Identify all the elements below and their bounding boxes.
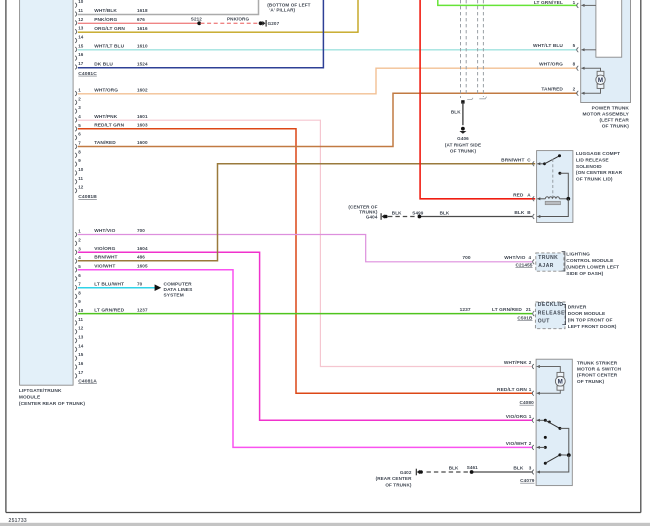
svg-text:13: 13 bbox=[78, 26, 84, 31]
svg-text:(LEFT REAR: (LEFT REAR bbox=[599, 118, 629, 124]
svg-text:WHT/VIO: WHT/VIO bbox=[504, 255, 525, 261]
svg-text:12: 12 bbox=[78, 326, 84, 331]
svg-text:DOOR MODULE: DOOR MODULE bbox=[568, 311, 606, 317]
lighting control module trunk ajar input bbox=[462, 251, 619, 277]
striker switch pin 3 BLK and C4079 bbox=[513, 455, 568, 483]
svg-text:WHT/ORG: WHT/ORG bbox=[539, 62, 563, 68]
svg-text:COMPUTER: COMPUTER bbox=[164, 282, 193, 288]
svg-text:MODULE: MODULE bbox=[19, 395, 41, 401]
svg-text:OF TRUNK): OF TRUNK) bbox=[450, 149, 477, 154]
wire TAN/RED 1600 (C4081B pin 7 to power trunk motor pin 2) bbox=[78, 93, 577, 146]
svg-text:486: 486 bbox=[137, 254, 145, 259]
svg-text:15: 15 bbox=[78, 352, 84, 357]
svg-text:(UNDER LOWER LEFT: (UNDER LOWER LEFT bbox=[566, 264, 619, 270]
svg-text:OF TRUNK): OF TRUNK) bbox=[385, 483, 412, 488]
svg-text:14: 14 bbox=[78, 343, 84, 348]
svg-text:700: 700 bbox=[462, 255, 471, 261]
svg-text:TAN/RED: TAN/RED bbox=[541, 87, 563, 93]
svg-text:MOTOR & SWITCH: MOTOR & SWITCH bbox=[577, 367, 622, 373]
svg-text:14: 14 bbox=[78, 35, 84, 40]
wire WHT/LT BLU 1610 (pin 15 to power trunk motor pin 5) bbox=[78, 44, 577, 50]
motor pin 2 TAN/RED bbox=[541, 87, 600, 96]
ground G406 (at right side of trunk) bbox=[445, 127, 481, 154]
connector C4081C pins 10-17 bbox=[75, 0, 97, 77]
solenoid switch bbox=[543, 154, 568, 199]
motor pin 5 WHT/LT BLU bbox=[533, 43, 596, 52]
svg-text:C4081A: C4081A bbox=[78, 378, 97, 384]
svg-text:AJAR: AJAR bbox=[538, 263, 554, 269]
wire WHT/ORG 1602 (C4081B pin 1 to power trunk motor pin 8) bbox=[78, 68, 577, 94]
solenoid pin C BRN/WHT bbox=[501, 158, 544, 167]
solenoid pin B BLK bbox=[514, 199, 568, 219]
svg-text:2: 2 bbox=[529, 441, 532, 446]
wire BLK (solenoid pin B to splice S499) bbox=[419, 211, 532, 217]
svg-text:BLK: BLK bbox=[451, 109, 461, 114]
svg-text:BLK: BLK bbox=[392, 211, 402, 216]
ground G404 (center of trunk) bbox=[348, 205, 387, 220]
svg-text:LT GRN/RED: LT GRN/RED bbox=[94, 307, 124, 313]
striker pin 2 WHT/PNK bbox=[504, 360, 560, 372]
svg-text:DECKLID: DECKLID bbox=[538, 302, 564, 308]
svg-text:12: 12 bbox=[78, 17, 84, 22]
svg-text:(CENTER REAR OF TRUNK): (CENTER REAR OF TRUNK) bbox=[19, 401, 85, 407]
dashed off-page wires (4) with loose ends bbox=[461, 0, 487, 100]
svg-text:10: 10 bbox=[78, 167, 84, 172]
svg-text:676: 676 bbox=[137, 17, 145, 22]
svg-text:WHT/LT BLU: WHT/LT BLU bbox=[94, 44, 124, 50]
motor M1 (power trunk) bbox=[596, 71, 605, 88]
svg-text:BLK: BLK bbox=[514, 210, 525, 216]
svg-text:G404: G404 bbox=[366, 215, 378, 220]
svg-text:DK BLU: DK BLU bbox=[94, 62, 113, 68]
solenoid pin A RED and coil bbox=[513, 193, 570, 205]
wire DK BLU 1524 (pin 17, up off-page) bbox=[78, 0, 324, 68]
svg-text:LT BLU/WHT: LT BLU/WHT bbox=[94, 281, 124, 287]
wire BLK dashed to ground G404 bbox=[388, 211, 418, 217]
svg-text:OF TRUNK LID): OF TRUNK LID) bbox=[576, 177, 613, 183]
svg-text:10: 10 bbox=[78, 308, 84, 313]
ground G402 (rear center of trunk) bbox=[376, 469, 423, 488]
ground G207 (bottom of left A pillar) bbox=[259, 2, 311, 26]
svg-text:WHT/PNK: WHT/PNK bbox=[504, 360, 528, 366]
svg-text:1616: 1616 bbox=[137, 26, 148, 31]
striker pin 1 RED/LT GRN and C4080 bbox=[497, 387, 560, 405]
svg-text:1: 1 bbox=[529, 387, 532, 392]
trunk striker motor and switch box bbox=[536, 359, 621, 485]
svg-text:LIGHTING: LIGHTING bbox=[566, 251, 590, 257]
svg-text:WHT/BLK: WHT/BLK bbox=[94, 8, 117, 14]
svg-text:TAN/RED: TAN/RED bbox=[94, 140, 116, 146]
svg-text:C4081B: C4081B bbox=[78, 194, 97, 200]
svg-text:3: 3 bbox=[529, 466, 532, 471]
striker switch pin 1 VIO/ORG bbox=[506, 414, 546, 423]
svg-text:POWER TRUNK: POWER TRUNK bbox=[592, 105, 630, 111]
svg-text:BLK: BLK bbox=[513, 466, 524, 472]
wire VIO/WHT 1605 (C4081A pin 5 to trunk striker switch pin 2) bbox=[78, 264, 532, 448]
svg-text:21: 21 bbox=[526, 307, 532, 312]
striker switch contacts bbox=[544, 419, 571, 465]
svg-text:S461: S461 bbox=[467, 465, 478, 470]
svg-text:SYSTEM: SYSTEM bbox=[164, 292, 184, 298]
svg-text:BLK: BLK bbox=[440, 211, 450, 216]
svg-text:1524: 1524 bbox=[137, 62, 148, 67]
wire ORG/LT GRN 1616 (pin 13, up off-page) bbox=[78, 0, 358, 32]
svg-text:1610: 1610 bbox=[137, 44, 148, 49]
svg-text:1601: 1601 bbox=[137, 114, 148, 119]
svg-text:C21455: C21455 bbox=[515, 263, 532, 268]
svg-text:G406: G406 bbox=[457, 136, 469, 141]
wire BLK to ground G406 bbox=[451, 100, 465, 125]
svg-text:TRUNK): TRUNK) bbox=[359, 210, 378, 215]
svg-text:SOLENOID: SOLENOID bbox=[576, 164, 602, 170]
motor pin 1 LT GRN/YEL bbox=[534, 0, 596, 8]
wire PNK/ORG dashed to G207 bbox=[201, 17, 260, 24]
svg-text:LEFT FRONT DOOR): LEFT FRONT DOOR) bbox=[568, 324, 617, 330]
svg-text:S499: S499 bbox=[412, 210, 423, 215]
svg-text:BRN/WHT: BRN/WHT bbox=[501, 158, 524, 164]
svg-text:SIDE OF DASH): SIDE OF DASH) bbox=[566, 271, 603, 277]
svg-text:VIO/ORG: VIO/ORG bbox=[94, 246, 115, 252]
svg-text:1237: 1237 bbox=[460, 307, 471, 313]
svg-text:OF TRUNK): OF TRUNK) bbox=[577, 379, 605, 385]
wire BRN/WHT 486 (C4081A pin 4 to solenoid pin C) bbox=[78, 164, 535, 261]
svg-text:70: 70 bbox=[137, 281, 143, 286]
svg-text:ORG/LT GRN: ORG/LT GRN bbox=[94, 26, 125, 32]
svg-text:WHT/PNK: WHT/PNK bbox=[94, 114, 118, 120]
striker switch pin 2 VIO/WHT bbox=[506, 441, 546, 450]
svg-text:1237: 1237 bbox=[137, 307, 148, 312]
svg-text:1: 1 bbox=[573, 0, 576, 5]
svg-text:C4081C: C4081C bbox=[78, 71, 97, 77]
svg-text:1603: 1603 bbox=[137, 123, 148, 128]
svg-text:C4079: C4079 bbox=[520, 478, 535, 483]
svg-text:16: 16 bbox=[78, 361, 84, 366]
svg-text:1604: 1604 bbox=[137, 246, 148, 251]
svg-text:LT GRN/RED: LT GRN/RED bbox=[492, 307, 522, 313]
svg-text:2: 2 bbox=[573, 87, 576, 92]
svg-text:VIO/ORG: VIO/ORG bbox=[506, 414, 527, 420]
wire WHT/PNK 1601 (C4081B pin 4 to trunk striker pin 2) bbox=[78, 114, 532, 367]
svg-text:(IN TOP FRONT OF: (IN TOP FRONT OF bbox=[568, 317, 613, 323]
motor M2 (trunk striker) bbox=[555, 372, 565, 390]
svg-text:VIO/WHT: VIO/WHT bbox=[94, 264, 115, 270]
svg-text:WHT/ORG: WHT/ORG bbox=[94, 88, 118, 94]
luggage compt lid release solenoid box bbox=[537, 151, 623, 223]
svg-text:13: 13 bbox=[78, 335, 84, 340]
connector C4081A pins 1-17 bbox=[75, 229, 97, 385]
svg-text:16: 16 bbox=[78, 52, 84, 57]
wire RED/LT GRN 1603 (C4081B pin 5 to trunk striker pin 1) bbox=[78, 123, 532, 394]
svg-text:12: 12 bbox=[78, 185, 84, 190]
svg-text:15: 15 bbox=[78, 43, 84, 48]
wire PNK/ORG 676 (pin 12) bbox=[78, 17, 199, 23]
wire WHT/VIO 700 (C4081A pin 1 to LCM trunk ajar input) bbox=[78, 228, 532, 262]
svg-text:OF TRUNK): OF TRUNK) bbox=[602, 124, 630, 130]
svg-text:8: 8 bbox=[573, 62, 576, 67]
svg-text:RED: RED bbox=[513, 193, 524, 199]
svg-text:S212: S212 bbox=[191, 17, 202, 22]
svg-text:(ON CENTER REAR: (ON CENTER REAR bbox=[576, 170, 623, 176]
power trunk motor assembly box bbox=[581, 0, 631, 130]
driver door module decklid release output bbox=[460, 302, 617, 330]
splice S461 bbox=[467, 465, 478, 474]
svg-text:1618: 1618 bbox=[137, 8, 148, 13]
wire BLK (striker pin 3 to splice S461) bbox=[472, 471, 533, 473]
svg-text:DATA LINES: DATA LINES bbox=[164, 287, 194, 293]
svg-text:700: 700 bbox=[137, 228, 145, 233]
svg-text:OUT: OUT bbox=[538, 318, 550, 324]
svg-text:LIFTGATE/TRUNK: LIFTGATE/TRUNK bbox=[19, 388, 62, 394]
svg-text:11: 11 bbox=[78, 176, 83, 181]
wire WHT/BLK 1618 (pin 11, up off-page) bbox=[78, 0, 259, 15]
svg-text:BRN/WHT: BRN/WHT bbox=[94, 254, 117, 260]
svg-text:10: 10 bbox=[78, 0, 84, 4]
svg-text:C4080: C4080 bbox=[519, 400, 534, 405]
svg-text:C501B: C501B bbox=[517, 316, 533, 321]
svg-text:VIO/WHT: VIO/WHT bbox=[506, 441, 527, 447]
wire BLK dashed to ground G402 bbox=[427, 465, 471, 472]
svg-text:(AT RIGHT SIDE: (AT RIGHT SIDE bbox=[445, 142, 481, 147]
wire VIO/ORG 1604 (C4081A pin 3 to trunk striker switch pin 1) bbox=[78, 246, 532, 420]
svg-text:'A' PILLAR): 'A' PILLAR) bbox=[269, 8, 295, 13]
wire RED (from off-page top to solenoid pin A) bbox=[420, 0, 535, 199]
liftgate/trunk module bbox=[19, 0, 85, 407]
svg-text:RELEASE: RELEASE bbox=[538, 310, 565, 316]
svg-text:LT GRN/YEL: LT GRN/YEL bbox=[534, 0, 563, 6]
splice S499 bbox=[412, 210, 423, 218]
wire LT GRN/YEL (from off-page top to power trunk motor pin 1) bbox=[438, 0, 577, 5]
svg-text:4: 4 bbox=[528, 255, 531, 260]
svg-text:RED/LT GRN: RED/LT GRN bbox=[94, 123, 124, 129]
svg-text:LID RELEASE: LID RELEASE bbox=[576, 158, 610, 164]
svg-text:251733: 251733 bbox=[9, 518, 28, 524]
svg-text:1: 1 bbox=[529, 414, 532, 419]
connector C4081B pins 1-12 bbox=[75, 88, 97, 201]
svg-text:11: 11 bbox=[78, 8, 83, 13]
svg-text:17: 17 bbox=[78, 61, 84, 66]
splice S212 bbox=[191, 17, 202, 26]
svg-text:(FRONT CENTER: (FRONT CENTER bbox=[577, 373, 618, 379]
svg-text:(REAR CENTER: (REAR CENTER bbox=[376, 476, 412, 481]
wire LT GRN/RED 1237 (C4081A pin 10 to driver door module) bbox=[78, 307, 532, 313]
svg-text:WHT/VIO: WHT/VIO bbox=[94, 228, 115, 234]
svg-text:1605: 1605 bbox=[137, 264, 148, 269]
svg-text:MOTOR ASSEMBLY: MOTOR ASSEMBLY bbox=[582, 111, 629, 117]
motor pin 8 WHT/ORG bbox=[539, 62, 600, 72]
svg-text:11: 11 bbox=[78, 317, 83, 322]
svg-text:RED/LT GRN: RED/LT GRN bbox=[497, 387, 527, 393]
svg-text:LUGGAGE COMPT: LUGGAGE COMPT bbox=[576, 151, 620, 157]
svg-text:M: M bbox=[598, 77, 603, 84]
svg-text:1600: 1600 bbox=[137, 140, 148, 145]
svg-text:TRUNK STRIKER: TRUNK STRIKER bbox=[577, 361, 618, 367]
svg-text:DRIVER: DRIVER bbox=[568, 304, 587, 310]
svg-text:2: 2 bbox=[529, 360, 532, 365]
wire LT BLU/WHT 70 (C4081A pin 7 to computer data lines) bbox=[78, 281, 156, 287]
arrow to computer data lines system bbox=[155, 282, 193, 299]
svg-text:G207: G207 bbox=[268, 21, 280, 26]
svg-text:M: M bbox=[558, 379, 563, 386]
svg-text:5: 5 bbox=[573, 43, 576, 48]
svg-text:WHT/LT BLU: WHT/LT BLU bbox=[533, 43, 563, 49]
svg-text:BLK: BLK bbox=[449, 465, 459, 470]
svg-text:17: 17 bbox=[78, 370, 84, 375]
svg-text:1602: 1602 bbox=[137, 88, 148, 93]
svg-text:CONTROL MODULE: CONTROL MODULE bbox=[566, 258, 614, 264]
svg-text:G402: G402 bbox=[400, 470, 412, 475]
svg-text:PNK/ORG: PNK/ORG bbox=[94, 17, 117, 23]
svg-text:TRUNK: TRUNK bbox=[538, 255, 558, 261]
svg-text:PNK/ORG: PNK/ORG bbox=[227, 17, 249, 22]
